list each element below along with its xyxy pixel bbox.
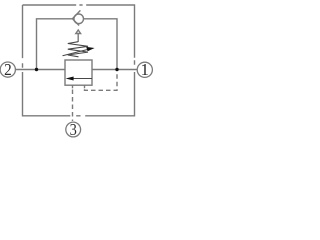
svg-text:2: 2 <box>4 60 12 79</box>
svg-text:1: 1 <box>141 60 150 79</box>
adjustment arrow shaft <box>63 49 89 56</box>
wire: left branch vertical + top-left pilot line <box>37 19 73 70</box>
svg-text:3: 3 <box>70 120 77 139</box>
valve body V1 (main spool box) <box>65 60 92 85</box>
check valve CV1 (ball and seat) <box>74 14 84 24</box>
drain stub left <box>72 85 74 88</box>
spring (adjustable) <box>68 42 88 57</box>
envelope frame (dash-dot cartridge boundary) <box>23 5 135 116</box>
port 1 circle <box>137 62 152 77</box>
dashed drain line to port 3 <box>72 90 74 122</box>
pilot stub right <box>84 85 86 88</box>
stem triangle-to-spring <box>77 34 79 43</box>
wire: port 1 line <box>92 69 137 71</box>
wire: port 2 line <box>15 69 65 71</box>
wire: top-right pilot line + right branch vertical <box>84 19 118 70</box>
junction dot A (port 2 branch) <box>35 68 38 71</box>
vent triangle (hollow, points up) <box>76 30 81 34</box>
adjustment arrowhead (filled) <box>86 47 94 51</box>
junction dot B (port 1 branch) <box>115 68 118 71</box>
port 3 circle <box>66 122 81 137</box>
port 2 circle <box>0 62 15 77</box>
spool arrowhead (filled) <box>66 77 74 81</box>
spool arrow shaft (flow path, points left) <box>73 78 93 80</box>
dashed pilot line to port 1 node <box>85 72 118 91</box>
